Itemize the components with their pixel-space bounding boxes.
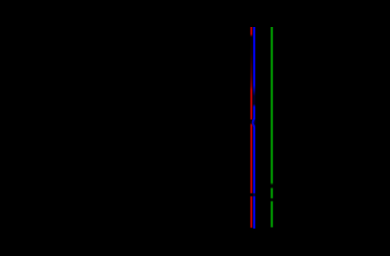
blue series left jog at crossing	[253, 119, 254, 127]
series line 3 (green), vertical	[271, 27, 273, 228]
series line 2 (blue), nearly vertical	[253, 27, 255, 229]
series line 1 (red), nearly vertical	[250, 27, 252, 228]
